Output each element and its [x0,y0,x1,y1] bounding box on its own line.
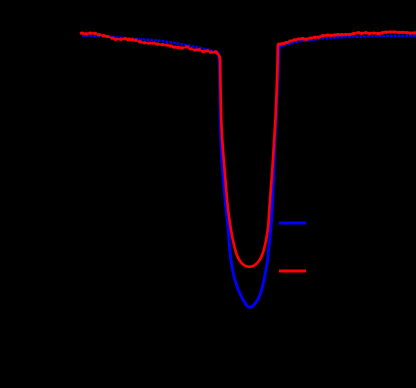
legend blue line [279,222,306,225]
blue model curve, transit dip [216,46,281,308]
red data connecting line, right shoulder [280,32,415,44]
blue model curve, left out-of-transit shoulder (beaded dotted look) [82,35,216,51]
red data markers, left shoulder [80,31,218,53]
legend red line [279,270,306,273]
red data markers, right shoulder [278,30,416,45]
red data connecting line, left shoulder [82,33,216,52]
blue model curve, right out-of-transit shoulder (beaded dotted look) [281,36,416,47]
red data curve, transit dip [217,44,280,267]
